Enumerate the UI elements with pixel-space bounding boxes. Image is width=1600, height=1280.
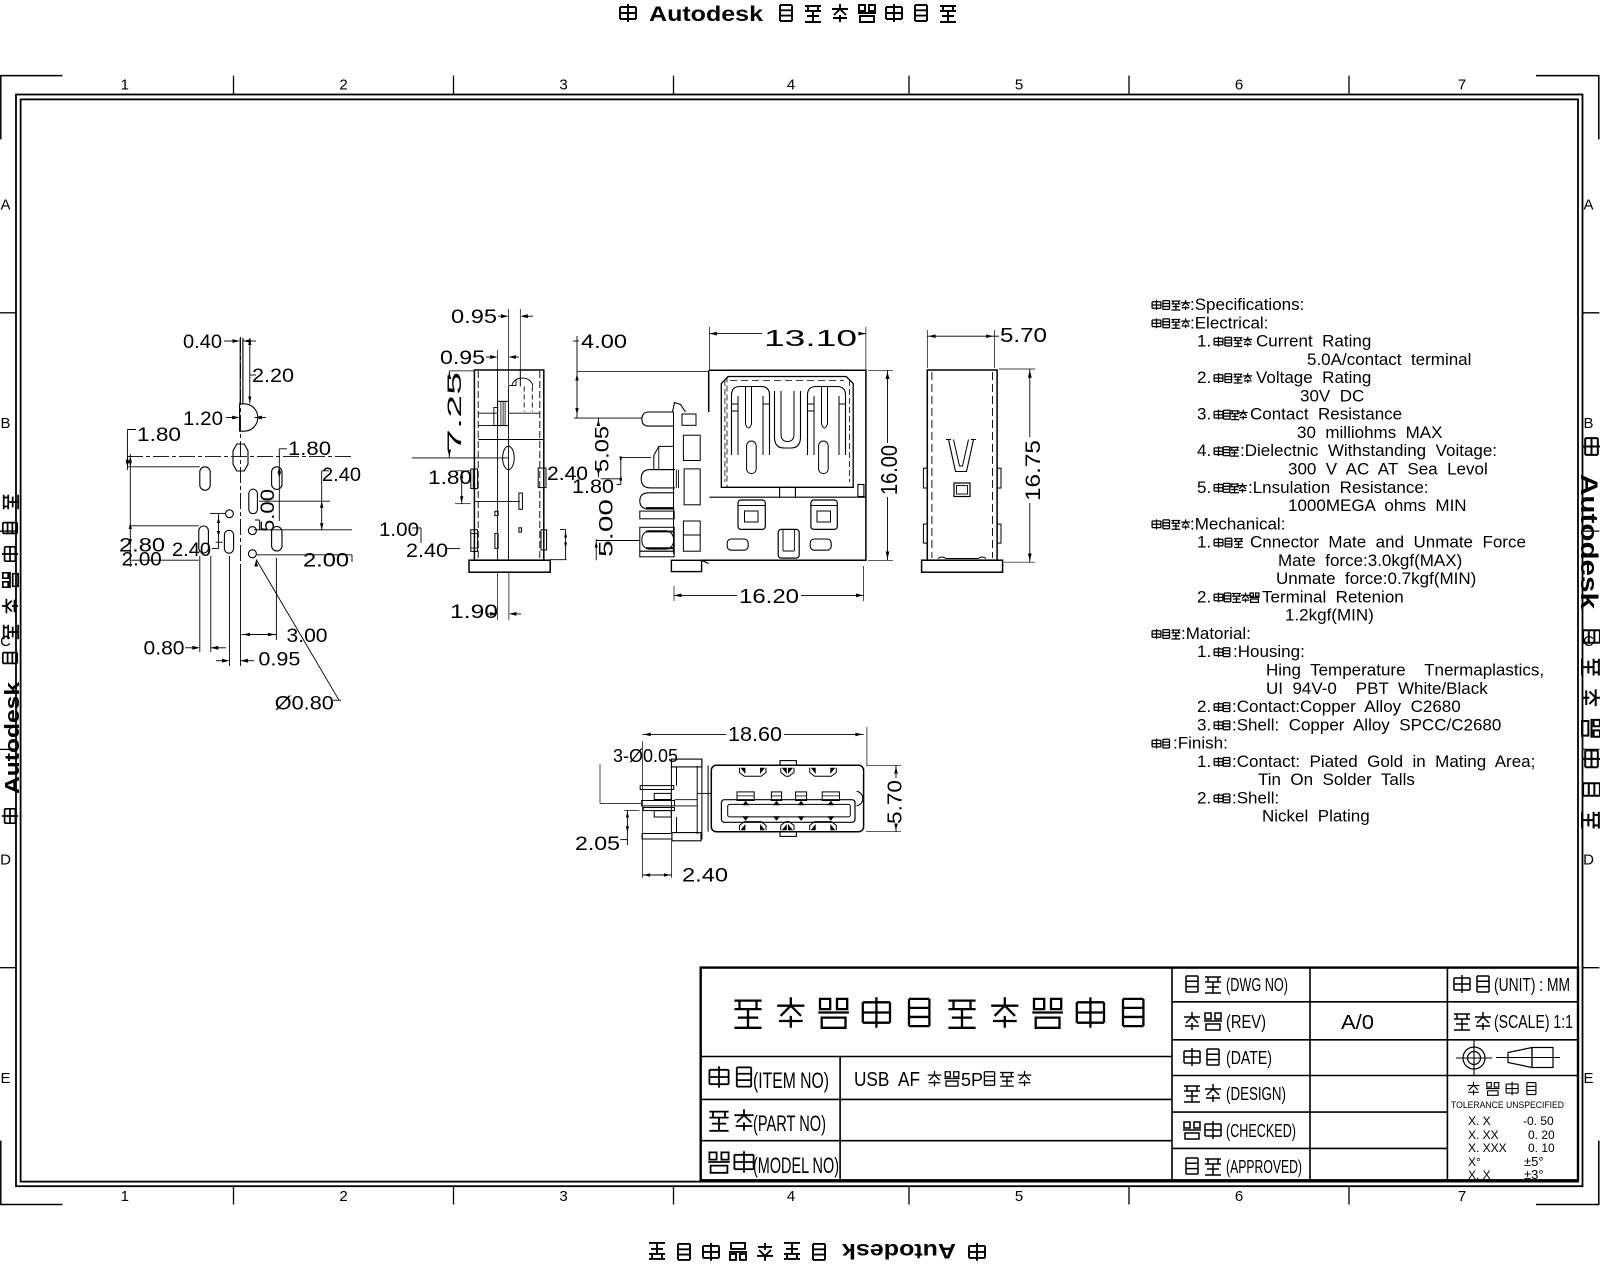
side view contact stack <box>498 401 509 425</box>
row ticks left <box>0 312 16 314</box>
front view right M-contact <box>808 387 846 456</box>
spec line 13: Mechanical <box>1152 519 1190 529</box>
svg-text:E: E <box>0 1070 10 1087</box>
svg-text:6: 6 <box>1235 77 1243 94</box>
top view tongue outer <box>721 800 855 823</box>
svg-text:5.00: 5.00 <box>258 489 279 532</box>
footprint slot pad (0.40 wide) <box>240 338 243 404</box>
svg-text:1.00: 1.00 <box>379 520 419 541</box>
svg-text:4: 4 <box>787 77 795 94</box>
front view top-left latch <box>673 403 686 413</box>
front view dashed shell lines <box>724 380 726 482</box>
front view pin C outer <box>640 527 674 551</box>
front view left M-contact <box>732 387 770 456</box>
top view contact triangles lower <box>742 816 749 821</box>
svg-text:Nickel Plating: Nickel Plating <box>1262 807 1370 826</box>
svg-text:2.40: 2.40 <box>172 540 211 561</box>
svg-text:3-Ø0.05: 3-Ø0.05 <box>613 746 678 766</box>
svg-text:2.: 2. <box>1197 788 1211 807</box>
svg-text::Contact:Copper Alloy C2680: :Contact:Copper Alloy C2680 <box>1232 697 1461 716</box>
svg-text:2.: 2. <box>1197 368 1211 387</box>
top view connective lines <box>675 799 698 801</box>
svg-text:Autodesk: Autodesk <box>842 1239 956 1262</box>
projection symbol circle-cross <box>1463 1047 1485 1069</box>
dimension stack lines left <box>129 454 131 567</box>
svg-text:1.80: 1.80 <box>288 439 331 460</box>
svg-text:3.: 3. <box>1197 715 1211 734</box>
front view slot left <box>747 441 757 474</box>
sheet corner mark bottom-right <box>1536 1141 1599 1205</box>
side view base flange <box>469 560 550 572</box>
svg-text:5.: 5. <box>1197 478 1211 497</box>
title block row line item/part <box>701 1098 1172 1100</box>
svg-text:Hing Temperature Tnermapla: Hing Temperature Tnermaplastics, <box>1266 661 1544 680</box>
top view right inner tab <box>857 791 863 806</box>
svg-text:(UNIT) : MM: (UNIT) : MM <box>1494 975 1570 995</box>
top view pin 2 <box>642 801 675 806</box>
spec line 25: Finish <box>1152 739 1169 749</box>
svg-text::Contact: Piated Gold in M: :Contact: Piated Gold in Mating Area; <box>1232 752 1535 771</box>
svg-text:Tin On Solder Talls: Tin On Solder Talls <box>1258 770 1415 789</box>
svg-text:3.: 3. <box>1197 405 1211 424</box>
svg-text::Electrical:: :Electrical: <box>1190 313 1268 332</box>
label 模号 (MODEL NO) <box>708 1151 753 1173</box>
title block outline <box>701 968 1578 1181</box>
top view lower edge slots <box>739 822 766 831</box>
front view bottom small pad left <box>727 539 748 550</box>
side view left edge pin upper <box>471 469 478 489</box>
svg-text:3: 3 <box>559 77 567 94</box>
svg-text:2.: 2. <box>1197 697 1211 716</box>
svg-text:(MODEL NO): (MODEL NO) <box>753 1153 839 1178</box>
svg-text:D: D <box>0 852 11 869</box>
svg-text:Autodesk: Autodesk <box>649 3 763 26</box>
front view rects right lower <box>683 521 700 551</box>
top view small blocks <box>654 793 671 799</box>
footprint stadium pad right <box>272 467 282 490</box>
front view step lines <box>709 496 779 498</box>
svg-text:1.2kgf(MIN): 1.2kgf(MIN) <box>1285 606 1374 625</box>
svg-text:4.: 4. <box>1197 441 1211 460</box>
front view small rect below pin B <box>640 511 674 519</box>
front view slot right <box>819 441 829 474</box>
svg-text:3.00: 3.00 <box>287 626 328 647</box>
svg-text:16.75: 16.75 <box>1022 440 1045 501</box>
svg-text:2.40: 2.40 <box>682 866 728 887</box>
tolerance header 未注公差 <box>1468 1082 1536 1096</box>
top view upper edge slots <box>739 768 766 777</box>
svg-text:5.70: 5.70 <box>1000 325 1047 347</box>
svg-text:C: C <box>0 633 11 650</box>
side view internal horizontals <box>478 412 497 414</box>
dimension mini cluster bottom-left <box>565 529 567 559</box>
front view pin A <box>641 470 675 488</box>
title block row line part/model <box>701 1140 1172 1142</box>
svg-text:13.10: 13.10 <box>764 325 857 351</box>
svg-text:(DWG NO): (DWG NO) <box>1226 975 1288 995</box>
front view pin T <box>642 412 674 426</box>
column ticks bottom <box>233 1186 235 1204</box>
svg-text:A/0: A/0 <box>1341 1012 1374 1034</box>
svg-text::Matorial:: :Matorial: <box>1181 624 1251 643</box>
label 版本 (REV) <box>1184 1012 1222 1030</box>
footprint hole left <box>226 510 234 518</box>
front view rect right of pin A <box>684 469 700 505</box>
label 审核 (CHECKED) <box>1183 1121 1221 1139</box>
front view left pin column line <box>673 412 675 554</box>
svg-text::Housing:: :Housing: <box>1233 642 1305 661</box>
svg-text:1.80: 1.80 <box>572 477 614 498</box>
svg-text:0. 20: 0. 20 <box>1528 1128 1555 1142</box>
front view bottom small pad right <box>810 539 831 550</box>
side view body outline <box>474 370 543 560</box>
svg-text:1.: 1. <box>1197 533 1211 552</box>
svg-text:2: 2 <box>339 77 347 94</box>
svg-text:5: 5 <box>1015 1188 1023 1205</box>
title block middle rows <box>1172 1001 1578 1003</box>
dimension line y=501 right <box>259 500 330 502</box>
svg-text:(DESIGN): (DESIGN) <box>1226 1084 1286 1104</box>
svg-text:Unmate force:0.7kgf(MIN): Unmate force:0.7kgf(MIN) <box>1276 569 1476 588</box>
side view solid internal verticals <box>497 370 499 560</box>
svg-text:-0. 50: -0. 50 <box>1523 1114 1554 1128</box>
svg-text:Ø0.80: Ø0.80 <box>275 694 334 715</box>
svg-text:16.00: 16.00 <box>876 445 902 495</box>
top view bottom bump <box>780 832 796 837</box>
dimension reference line y=418 <box>574 417 642 419</box>
right view bottom curve <box>938 557 986 559</box>
top view top bump <box>780 761 796 766</box>
svg-text:B: B <box>0 415 10 432</box>
company name 东莞泰科连接器有限公司 <box>734 997 1143 1028</box>
row ticks right <box>1583 312 1600 314</box>
svg-text:1: 1 <box>121 77 129 94</box>
title block value/right divider <box>1309 968 1311 1181</box>
front view chamfer block <box>654 446 674 469</box>
svg-text:6: 6 <box>1235 1188 1243 1205</box>
front view left contact housing <box>738 500 765 529</box>
svg-text:C: C <box>1583 633 1594 650</box>
svg-text:0. 10: 0. 10 <box>1528 1141 1555 1155</box>
front view pin T side rect <box>682 414 696 425</box>
svg-text::Mechanical:: :Mechanical: <box>1190 514 1285 533</box>
svg-text:2.: 2. <box>1197 587 1211 606</box>
svg-text:UI 94V-0 PBT White/Black: UI 94V-0 PBT White/Black <box>1266 679 1488 698</box>
label 设计 (DESIGN) <box>1184 1084 1221 1102</box>
top view pin 4 <box>642 834 672 840</box>
footprint hole bottom (Ø0.80) <box>248 550 256 558</box>
top stamp text: 由 Autodesk 教育版产品制作 <box>620 3 956 26</box>
svg-text:(SCALE) 1:1: (SCALE) 1:1 <box>1494 1012 1573 1032</box>
top view left pin block verticals <box>670 767 672 833</box>
svg-text:(PART NO): (PART NO) <box>753 1111 826 1136</box>
front view shell opening frame <box>721 377 853 488</box>
svg-text:X. X: X. X <box>1468 1168 1491 1182</box>
right view body outline <box>927 370 997 560</box>
front view outline <box>702 370 866 560</box>
svg-text:(CHECKED): (CHECKED) <box>1226 1121 1296 1141</box>
svg-text:X. X: X. X <box>1468 1114 1491 1128</box>
title block label/value divider <box>839 1057 841 1181</box>
svg-text:18.60: 18.60 <box>728 724 782 746</box>
title block company cell divider <box>701 1056 1172 1058</box>
dimension leader line x=600 <box>599 764 601 803</box>
svg-text::Lnsulation Resistance:: :Lnsulation Resistance: <box>1248 478 1429 497</box>
footprint stadium pad bottom-right <box>272 527 282 552</box>
dimension 2.20 <box>249 338 251 404</box>
sheet corner mark top-right <box>1536 76 1599 140</box>
svg-text::Dielectnic Withstanding Voi: :Dielectnic Withstanding Voitage: <box>1240 441 1497 460</box>
svg-text:A: A <box>1583 197 1593 214</box>
svg-text:1: 1 <box>121 1188 129 1205</box>
svg-text:A: A <box>0 197 10 214</box>
top view pin 3 <box>643 808 674 811</box>
svg-text:1.: 1. <box>1197 642 1211 661</box>
svg-text:5P: 5P <box>961 1070 983 1090</box>
top view left top block <box>671 759 702 767</box>
side view left edge pin lower <box>471 530 478 552</box>
svg-text:E: E <box>1583 1070 1593 1087</box>
svg-text:1.: 1. <box>1197 752 1211 771</box>
svg-text:4: 4 <box>787 1188 795 1205</box>
svg-text:7: 7 <box>1458 77 1466 94</box>
right view small square <box>954 483 970 497</box>
svg-text:0.95: 0.95 <box>258 650 300 671</box>
footprint stadium pad centre <box>249 489 258 514</box>
footprint hole middle <box>248 527 256 535</box>
svg-text:Current Rating: Current Rating <box>1256 332 1371 351</box>
svg-text:7.25: 7.25 <box>445 372 466 452</box>
side view internal arch <box>512 378 533 386</box>
svg-text:0.95: 0.95 <box>451 307 497 328</box>
front view right contact housing <box>811 500 837 529</box>
sheet corner mark bottom-left <box>0 1141 63 1205</box>
svg-text:2.40: 2.40 <box>322 465 361 486</box>
right view edge tabs upper <box>923 468 927 488</box>
svg-text:2.40: 2.40 <box>406 541 448 562</box>
svg-text:5.00: 5.00 <box>597 499 618 557</box>
svg-text:X°: X° <box>1468 1155 1481 1169</box>
svg-text:Voltage Rating: Voltage Rating <box>1256 368 1371 387</box>
svg-text:(APPROVED): (APPROVED) <box>1226 1157 1302 1177</box>
svg-text:2.20: 2.20 <box>252 366 294 387</box>
dimension line y=540.5 <box>595 539 597 560</box>
footprint stadium pad left <box>200 467 210 490</box>
column ticks top <box>233 76 235 95</box>
svg-text:7: 7 <box>1458 1188 1466 1205</box>
right view base flange <box>922 560 1003 572</box>
svg-text:±3°: ±3° <box>1524 1167 1544 1182</box>
front view upper inner rect <box>683 435 700 460</box>
svg-text:B: B <box>1583 415 1593 432</box>
svg-text::Specifications:: :Specifications: <box>1190 295 1304 314</box>
title block right section divider <box>1446 968 1448 1181</box>
svg-text:30 milliohms MAX: 30 milliohms MAX <box>1297 423 1442 442</box>
svg-text:4.00: 4.00 <box>581 332 627 353</box>
svg-text:5.0A/contact terminal: 5.0A/contact terminal <box>1307 350 1471 369</box>
top view contacts on tongue <box>737 792 754 801</box>
projection symbol cone <box>1496 1057 1560 1059</box>
svg-text:X. XXX: X. XXX <box>1468 1141 1507 1155</box>
front view bottom centre tab <box>778 529 799 558</box>
svg-text:0.40: 0.40 <box>183 332 222 353</box>
label 比例 (SCALE) 1:1 <box>1454 1012 1491 1030</box>
svg-text:Contact Resistance: Contact Resistance <box>1250 405 1402 424</box>
label 料号 (PART NO) <box>709 1109 753 1131</box>
right view edge tabs lower <box>923 524 927 543</box>
dimension line y=529.8 right <box>254 529 352 531</box>
footprint hex pad (1.80) <box>233 444 248 471</box>
svg-text:(REV): (REV) <box>1226 1012 1266 1032</box>
side view right edge pin lower <box>541 530 547 550</box>
side view dashed internal verticals <box>477 371 479 559</box>
svg-text:30V DC: 30V DC <box>1300 386 1364 405</box>
side view small inner rects <box>519 493 523 509</box>
svg-text:2: 2 <box>339 1188 347 1205</box>
top view left bottom block <box>672 833 701 841</box>
label 单位 (UNIT) : MM <box>1454 975 1489 993</box>
footprint stadium pad bottom-middle <box>224 530 233 553</box>
svg-text:1.80: 1.80 <box>137 425 181 446</box>
svg-text:3: 3 <box>559 1188 567 1205</box>
right view dashed lines <box>931 372 933 558</box>
left stamp text (rotated -90) <box>2 495 24 823</box>
svg-text:1.: 1. <box>1197 332 1211 351</box>
svg-text:Cnnector Mate and Unmate F: Cnnector Mate and Unmate Force <box>1250 533 1526 552</box>
svg-text:5.70: 5.70 <box>885 780 907 824</box>
front view mounting foot <box>671 560 701 571</box>
svg-text::Shell: Copper Alloy SPCC/C: :Shell: Copper Alloy SPCC/C2680 <box>1232 715 1501 734</box>
spec line 19: Material <box>1152 629 1180 639</box>
top view contact triangles upper <box>742 801 749 806</box>
spec line 2: Electrical <box>1152 318 1190 328</box>
label 图号 (DWG NO) <box>1186 976 1221 993</box>
svg-text:1.20: 1.20 <box>183 409 223 430</box>
svg-text:5.05: 5.05 <box>593 426 614 472</box>
svg-text:16.20: 16.20 <box>739 586 799 608</box>
svg-text:Terminal Retenion: Terminal Retenion <box>1262 587 1404 606</box>
svg-text:(DATE): (DATE) <box>1226 1048 1272 1068</box>
front view mid step rect <box>780 487 796 497</box>
footprint D-shaped pad (1.20) <box>240 404 258 431</box>
label 核准 (APPROVED) <box>1186 1158 1221 1175</box>
top view pin 1 <box>640 786 674 790</box>
top view body outline <box>711 765 863 831</box>
svg-text:0.95: 0.95 <box>440 348 485 369</box>
svg-text:(ITEM NO): (ITEM NO) <box>753 1068 829 1093</box>
dimension 4.00 extension <box>577 371 708 373</box>
svg-text:2.05: 2.05 <box>575 834 620 855</box>
svg-text:0.80: 0.80 <box>144 639 185 660</box>
svg-text:5: 5 <box>1015 77 1023 94</box>
sheet corner mark top-left <box>0 76 63 140</box>
footprint vertical centerline <box>240 337 242 568</box>
side view right edge pin upper <box>538 468 546 488</box>
label 品名 (ITEM NO) <box>709 1066 751 1088</box>
svg-text:USB AF: USB AF <box>854 1069 920 1091</box>
svg-text:D: D <box>1583 852 1594 869</box>
svg-text:300 V AC AT Sea Levol: 300 V AC AT Sea Levol <box>1288 460 1488 479</box>
front view small rect below pin C <box>640 551 674 557</box>
svg-text::Finish:: :Finish: <box>1173 734 1228 753</box>
dimension 5.05 line <box>597 418 599 423</box>
bottom stamp text (rotated 180) <box>649 1239 985 1262</box>
svg-text:2.00: 2.00 <box>303 551 349 572</box>
spec line 1: Specifications <box>1152 300 1190 310</box>
title block middle section divider <box>1171 968 1173 1181</box>
footprint horizontal centerline <box>127 456 352 458</box>
top view tongue inner <box>728 804 851 817</box>
right stamp text (rotated +90) <box>1575 438 1600 828</box>
front view right edge tab <box>858 485 864 497</box>
svg-text::Shell:: :Shell: <box>1232 788 1279 807</box>
dimension 4.00 vertical line <box>576 336 578 418</box>
front view middle U-contact <box>775 391 801 448</box>
right view V-spring <box>949 440 974 472</box>
svg-text:1000MEGA ohms MIN: 1000MEGA ohms MIN <box>1288 496 1467 515</box>
front view pin C inner stadium <box>642 531 674 549</box>
label 日期 (DATE) <box>1184 1048 1219 1066</box>
svg-text:TOLERANCE UNSPECIFIED: TOLERANCE UNSPECIFIED <box>1451 1100 1564 1111</box>
front view pin B <box>640 493 674 509</box>
svg-text:Mate force:3.0kgf(MAX): Mate force:3.0kgf(MAX) <box>1278 551 1462 570</box>
svg-text:X. XX: X. XX <box>1468 1128 1499 1142</box>
footprint stadium pad bottom-left <box>199 526 209 553</box>
side view contact ellipse <box>503 446 515 469</box>
